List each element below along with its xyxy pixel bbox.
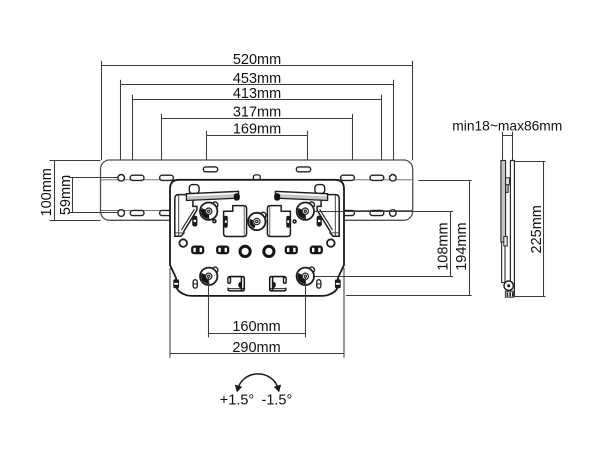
svg-text:225mm: 225mm (529, 205, 545, 253)
svg-text:520mm: 520mm (233, 52, 281, 68)
svg-text:290mm: 290mm (232, 340, 280, 356)
svg-text:-1.5°: -1.5° (262, 393, 293, 409)
svg-text:413mm: 413mm (233, 86, 281, 102)
svg-text:317mm: 317mm (233, 105, 281, 121)
svg-text:min18~max86mm: min18~max86mm (452, 118, 562, 133)
svg-text:194mm: 194mm (454, 222, 470, 270)
svg-text:453mm: 453mm (233, 71, 281, 87)
svg-text:100mm: 100mm (39, 168, 55, 216)
svg-text:59mm: 59mm (58, 175, 74, 215)
svg-text:169mm: 169mm (233, 121, 281, 137)
svg-text:108mm: 108mm (436, 222, 452, 270)
svg-text:160mm: 160mm (232, 319, 280, 335)
svg-text:+1.5°: +1.5° (220, 393, 254, 409)
